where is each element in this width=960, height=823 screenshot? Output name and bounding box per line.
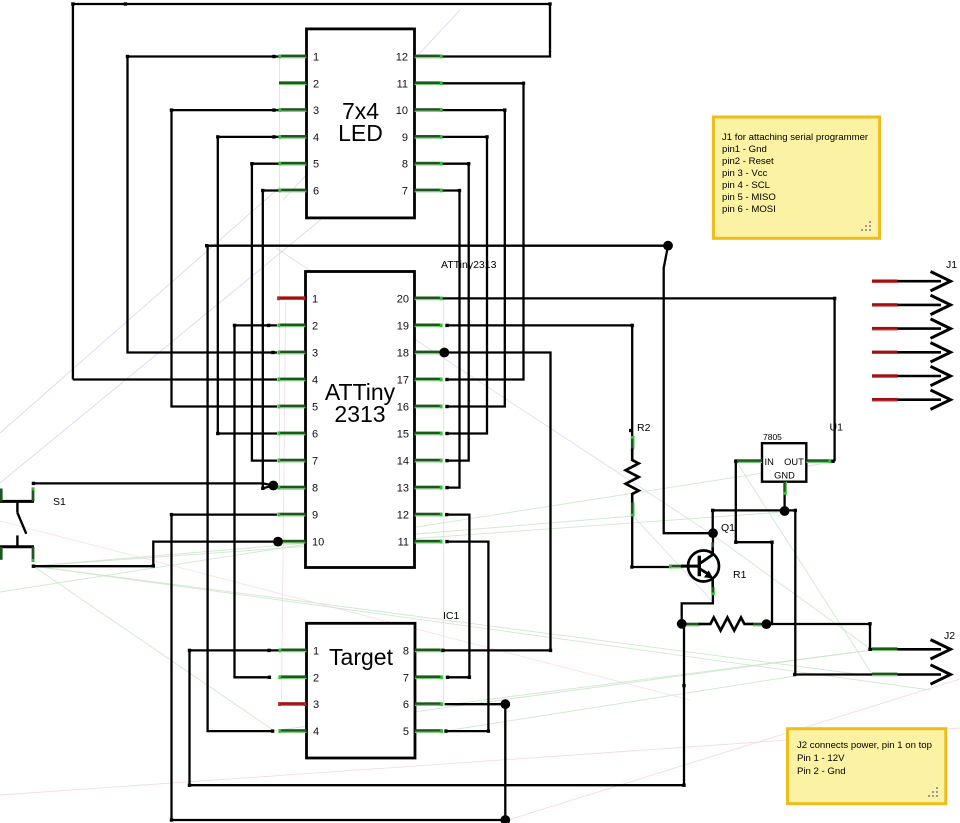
svg-text:1: 1 xyxy=(313,52,319,64)
wire LED pin5 to ATTiny pin7 xyxy=(252,164,279,461)
svg-text:13: 13 xyxy=(397,483,409,495)
ratsnest net pink vertical near ATTiny pin8 xyxy=(282,302,286,700)
wire bottom rail to Target pin6 xyxy=(445,704,506,820)
svg-text:3: 3 xyxy=(313,699,319,711)
wire top rail jog down to Q1 collector node xyxy=(664,246,713,534)
svg-text:ATTiny2313: ATTiny2313 xyxy=(441,259,497,271)
ATTiny2313 pin 12 stub xyxy=(415,513,443,517)
svg-text:12: 12 xyxy=(396,52,408,64)
ATTiny2313 pin 18 stub xyxy=(415,351,443,355)
svg-text:GND: GND xyxy=(774,471,795,481)
svg-text:14: 14 xyxy=(397,456,409,468)
switch S1 xyxy=(0,487,34,562)
svg-text:S1: S1 xyxy=(53,496,66,508)
Target pin 5 stub xyxy=(415,729,443,733)
svg-text:7805: 7805 xyxy=(763,432,782,442)
wire S1 bottom to ATTiny pin10 xyxy=(33,542,278,567)
svg-text:LED: LED xyxy=(338,120,383,146)
Target pin 7 stub xyxy=(415,675,443,679)
note annotation J1 description xyxy=(713,117,879,238)
ratsnest green Target pin4 to J2 pin1 xyxy=(272,650,872,731)
7x4 LED pin 8 stub xyxy=(415,162,443,166)
ATTiny2313 pin 10 stub xyxy=(277,540,305,544)
wire LED pin4 to ATTiny pin6 xyxy=(218,137,279,434)
svg-text:1: 1 xyxy=(312,293,318,305)
wire Target pin4 riser to top rail xyxy=(208,246,668,731)
ATTiny2313 pin 8 stub xyxy=(277,486,305,490)
wire LED pin10 to ATTiny pin16 xyxy=(442,110,505,406)
svg-text:17: 17 xyxy=(397,375,409,387)
svg-text:J1: J1 xyxy=(946,259,957,271)
7x4 LED pin 1 stub xyxy=(278,55,306,59)
Target pin 3 stub xyxy=(278,702,306,706)
wire LED pin12 to top frame xyxy=(442,4,551,57)
ratsnest pink bottom long xyxy=(0,728,960,795)
ratsnest green Target pin6 to J2 pin1 xyxy=(445,650,872,705)
svg-text:pin2 - Reset: pin2 - Reset xyxy=(722,156,774,167)
svg-text:pin 5 - MISO: pin 5 - MISO xyxy=(722,192,776,203)
7x4 LED pin number labels xyxy=(313,52,408,198)
wire Target pin1 to R1 left node xyxy=(190,624,685,785)
ratsnest lavender diagonal LED box to pin12 xyxy=(283,10,460,200)
connector J1 pin 1 arrow xyxy=(872,272,951,291)
svg-text:J1 for attaching serial progra: J1 for attaching serial programmer xyxy=(722,132,869,143)
svg-text:4: 4 xyxy=(313,132,319,144)
svg-text:3: 3 xyxy=(313,105,319,117)
junction dots (nodes) xyxy=(268,241,789,823)
svg-text:5: 5 xyxy=(313,159,319,171)
ratsnest green S1 to Target pin4 xyxy=(33,566,273,730)
svg-text:7: 7 xyxy=(403,672,409,684)
7x4 LED pin 12 stub xyxy=(415,55,443,59)
wire LED pin9 to ATTiny pin15 xyxy=(442,137,488,434)
wire LED pin3 to ATTiny pin5 xyxy=(172,110,280,406)
ratsnest lavender short horizontal at ATTiny pin8 xyxy=(262,489,306,491)
ratsnest lavender diagonal upper-left B xyxy=(0,194,352,483)
7805 OUT pin stub xyxy=(806,459,831,463)
svg-text:4: 4 xyxy=(312,375,318,387)
svg-text:20: 20 xyxy=(397,293,409,305)
ATTiny2313 pin 1 stub xyxy=(277,296,305,300)
ratsnest green Q1 collector node to J2 pin1 xyxy=(713,535,872,650)
svg-text:2: 2 xyxy=(312,320,318,332)
svg-text:IN: IN xyxy=(765,457,774,467)
Target pin 8 stub xyxy=(415,649,443,653)
svg-text:16: 16 xyxy=(397,402,409,414)
7x4 LED pin 5 stub xyxy=(278,162,306,166)
svg-text:7: 7 xyxy=(402,186,408,198)
wire GND node to J2 pin2 xyxy=(795,510,872,674)
connector J2 pin 2 arrow xyxy=(872,665,951,684)
ATTiny2313 pin 9 stub xyxy=(277,513,305,517)
transistor Q1 xyxy=(669,542,719,595)
svg-text:12: 12 xyxy=(397,510,409,522)
7x4 LED pin 4 stub xyxy=(278,135,306,139)
wire Q1 collector black part xyxy=(712,533,714,542)
svg-text:18: 18 xyxy=(397,348,409,360)
ratsnest lavender diagonal upper-left A xyxy=(0,187,280,433)
svg-text:11: 11 xyxy=(397,78,408,90)
IC ATTiny 2313 body xyxy=(306,272,415,568)
wire R1 right node to J2 pin1 xyxy=(766,624,872,649)
wire Q1 emitter down to R1 left node xyxy=(682,595,713,624)
wire ATTiny pin9 to bottom rail xyxy=(172,515,506,820)
wire LED pin11 to ATTiny pin17 xyxy=(442,83,524,379)
svg-text:8: 8 xyxy=(402,159,408,171)
7x4 LED pin 2 stub xyxy=(279,81,307,85)
wire ATTiny pin19 to R2 top xyxy=(447,325,632,437)
Target pin 6 stub xyxy=(415,702,443,706)
ratsnest pink bottom left to J2 area xyxy=(505,679,960,821)
svg-text:11: 11 xyxy=(398,537,409,549)
ATTiny2313 pin number labels xyxy=(312,293,409,548)
ATTiny2313 pin 5 stub xyxy=(277,405,305,409)
svg-text:2: 2 xyxy=(313,672,319,684)
svg-text:6: 6 xyxy=(312,429,318,441)
ratsnest green S1 to GND node xyxy=(33,512,784,566)
IC 7x4 LED body xyxy=(307,29,415,218)
svg-text:OUT: OUT xyxy=(784,457,804,467)
svg-text:pin1 - Gnd: pin1 - Gnd xyxy=(722,144,767,155)
ratsnest green S1 to J2 pin2 xyxy=(33,566,872,676)
ratsnest pink near IC1 xyxy=(0,521,690,700)
ATTiny2313 pin 7 stub xyxy=(277,459,305,463)
svg-text:19: 19 xyxy=(397,320,409,332)
svg-text:3: 3 xyxy=(312,348,318,360)
ratsnest lavender diagonal ATTiny right to Q1 xyxy=(276,248,713,535)
connector J1 pin 5 arrow xyxy=(872,366,951,385)
svg-text:8: 8 xyxy=(403,645,409,657)
wire R2 bottom to Q1 base xyxy=(632,516,670,568)
Target pin 4 stub xyxy=(278,729,306,733)
resistor R2 xyxy=(626,436,639,517)
7805 pin name labels xyxy=(765,457,805,481)
svg-text:Target: Target xyxy=(329,644,394,670)
wire top frame to ATTiny pin4 xyxy=(73,378,277,380)
svg-text:Q1: Q1 xyxy=(721,522,735,534)
svg-text:8: 8 xyxy=(312,483,318,495)
wire ATTiny pin2 to Target pin2 xyxy=(235,325,278,677)
wire 7805 IN down around to R1 right node xyxy=(736,461,772,624)
ATTiny 2313 name label xyxy=(325,379,396,427)
ratsnest green Target pin5 to J2 pin2 corner xyxy=(445,676,795,731)
ratsnest green IN corner to J2 pin2 xyxy=(736,461,872,674)
wire ATTiny pin18 to Target pin8 xyxy=(443,353,551,651)
ratsnest green S1 to far right xyxy=(33,566,930,690)
wire LED pin8 to ATTiny pin14 xyxy=(442,164,469,461)
svg-text:pin 3 - Vcc: pin 3 - Vcc xyxy=(722,168,768,179)
svg-text:U1: U1 xyxy=(830,422,844,434)
IC IC1 Target body xyxy=(307,623,416,758)
7x4 LED pin 10 stub xyxy=(415,108,443,112)
ATTiny2313 pin 15 stub xyxy=(415,432,443,436)
connector J1 pin 3 arrow xyxy=(872,319,951,338)
svg-text:5: 5 xyxy=(403,726,409,738)
svg-text:9: 9 xyxy=(402,132,408,144)
svg-text:2: 2 xyxy=(313,78,319,90)
ATTiny2313 pin 6 stub xyxy=(277,432,305,436)
connector J2 pin 1 arrow xyxy=(872,640,951,659)
7x4 LED pin 11 stub xyxy=(415,81,443,85)
wire ATTiny pin12 to Target pin7 xyxy=(447,515,470,678)
note annotation J2 description xyxy=(788,729,946,804)
wire 7805 GND node horizontal xyxy=(713,509,796,511)
svg-text:7: 7 xyxy=(312,456,318,468)
connector J1 pin 2 arrow xyxy=(872,295,951,314)
svg-text:J2: J2 xyxy=(944,630,955,642)
svg-text:R1: R1 xyxy=(733,569,747,581)
svg-text:4: 4 xyxy=(313,726,319,738)
svg-text:J2 connects power, pin 1 on to: J2 connects power, pin 1 on top xyxy=(797,740,932,751)
svg-text:6: 6 xyxy=(313,186,319,198)
wire GND node corner down to Q1 collector node xyxy=(712,510,714,533)
wire 7805 GND stub black part xyxy=(783,495,785,511)
Target pin 2 stub xyxy=(278,675,306,679)
ATTiny2313 pin 11 stub xyxy=(415,540,443,544)
svg-text:IC1: IC1 xyxy=(443,610,460,622)
7x4 LED name label xyxy=(338,98,383,146)
svg-text:Pin 1 - 12V: Pin 1 - 12V xyxy=(797,753,845,764)
ATTiny2313 pin 20 stub xyxy=(415,297,443,301)
ratsnest net pale vertical along ATTiny right stubs xyxy=(443,299,445,705)
connector J1 pin 6 arrow xyxy=(872,390,951,409)
svg-text:pin 6 - MOSI: pin 6 - MOSI xyxy=(722,204,776,215)
7x4 LED pin 3 stub xyxy=(278,108,306,112)
ATTiny2313 pin 14 stub xyxy=(415,459,443,463)
Target pin number labels xyxy=(313,645,409,738)
svg-text:2313: 2313 xyxy=(334,401,385,427)
ATTiny2313 pin 16 stub xyxy=(415,405,443,409)
svg-text:15: 15 xyxy=(397,429,409,441)
ATTiny2313 pin 2 stub xyxy=(277,324,305,328)
svg-text:R2: R2 xyxy=(637,422,651,434)
svg-text:pin 4 - SCL: pin 4 - SCL xyxy=(722,180,771,191)
7805 GND pin stub xyxy=(783,482,787,495)
voltage regulator U1 7805 body xyxy=(762,443,806,482)
Target pin 1 stub xyxy=(278,649,306,653)
ratsnest net lavender vertical along ATTiny/LED left pins xyxy=(279,56,281,490)
wire S1 top to ATTiny pin8 xyxy=(33,483,273,485)
wire ATTiny pin20 to 7805 OUT riser xyxy=(442,298,835,461)
resistor R1 xyxy=(686,618,767,631)
ratsnest lavender diagonal R2 bottom to Q1 emitter xyxy=(633,516,712,601)
wire LED pin6 to ATTiny pin8 junction xyxy=(263,191,279,489)
ATTiny2313 pin 4 stub xyxy=(277,378,305,382)
wire top frame from left vertical to LED pin12 riser xyxy=(73,4,550,380)
7x4 LED pin 6 stub xyxy=(278,189,306,193)
ratsnest green S1 to R2 bottom xyxy=(33,516,633,566)
wire LED pin1 to ATTiny pin3 xyxy=(128,57,280,353)
svg-text:6: 6 xyxy=(403,699,409,711)
7x4 LED pin 7 stub xyxy=(415,189,443,193)
svg-text:10: 10 xyxy=(312,537,324,549)
svg-text:5: 5 xyxy=(312,402,318,414)
ATTiny2313 pin 19 stub xyxy=(415,324,443,328)
ATTiny2313 pin 17 stub xyxy=(415,378,443,382)
wire LED pin7 to ATTiny pin13 xyxy=(442,191,460,488)
wire ATTiny pin11 to Target pin5 xyxy=(446,542,488,732)
svg-text:1: 1 xyxy=(313,645,319,657)
svg-text:10: 10 xyxy=(396,105,408,117)
ATTiny2313 pin 13 stub xyxy=(415,486,443,490)
svg-text:Pin 2 - Gnd: Pin 2 - Gnd xyxy=(797,766,846,777)
svg-text:9: 9 xyxy=(312,510,318,522)
ATTiny2313 pin 3 stub xyxy=(277,351,305,355)
ratsnest green left edge to OUT pin xyxy=(0,462,833,592)
7x4 LED pin 9 stub xyxy=(415,135,443,139)
connector J1 pin 4 arrow xyxy=(872,343,951,362)
7805 IN pin stub xyxy=(735,459,762,463)
